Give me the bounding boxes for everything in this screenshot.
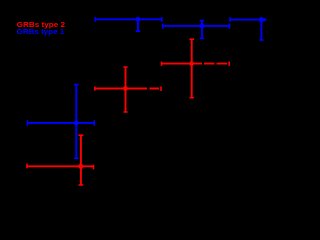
svg-text:GRBs type 1: GRBs type 1 <box>17 27 65 36</box>
